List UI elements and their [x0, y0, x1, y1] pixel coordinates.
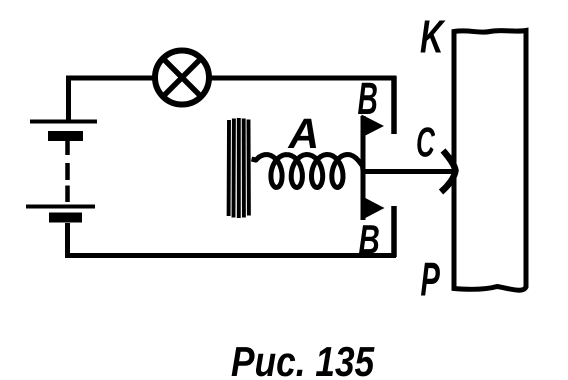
wire top-left horizontal from battery corner to lamp	[66, 76, 156, 81]
paper strip K-P	[454, 31, 526, 291]
wire bottom horizontal	[65, 253, 396, 258]
label B bottom	[359, 225, 379, 253]
wire left vertical from top corner down to battery	[66, 76, 71, 121]
label A	[288, 119, 317, 148]
battery cell 1 long plate	[30, 120, 97, 124]
armature vertical bar	[361, 116, 366, 220]
wire left-bottom vertical from battery down	[65, 223, 70, 255]
label C	[417, 127, 435, 157]
caption Рис. 135	[232, 347, 375, 377]
battery inter-cell dashed wire	[65, 141, 70, 202]
armature contact arrowhead bottom	[363, 197, 385, 220]
label K	[421, 21, 446, 53]
pointer wire from armature to strip	[361, 169, 452, 174]
pointer arrowhead at C touching strip	[441, 151, 456, 193]
coil A winding	[252, 155, 364, 188]
battery cell 2 thick plate	[49, 213, 82, 223]
label B top	[358, 83, 377, 114]
wire top horizontal from lamp to right corner	[208, 76, 397, 81]
lamp HL	[155, 51, 209, 105]
battery cell 1 thick plate	[48, 131, 83, 141]
battery cell 2 long plate	[26, 205, 95, 209]
fixed contact B bottom (vertical rise from bottom wire)	[391, 206, 397, 257]
iron core of electromagnet	[229, 118, 249, 218]
label P	[421, 263, 440, 296]
armature contact arrowhead top	[362, 115, 385, 138]
fixed contact B top (vertical drop from top wire)	[391, 77, 397, 135]
